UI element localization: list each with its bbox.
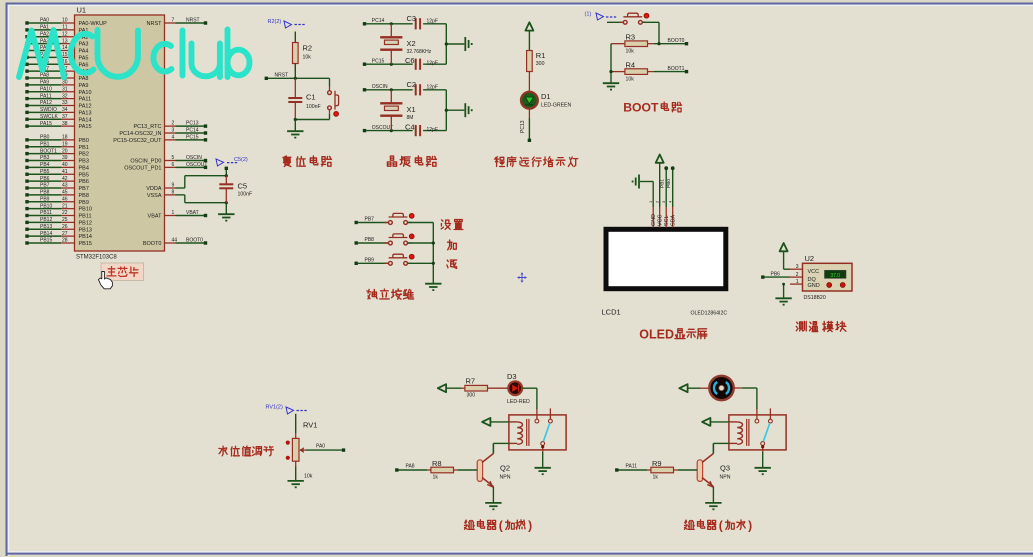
svg-text:12pF: 12pF [427, 84, 438, 90]
svg-text:PA11: PA11 [626, 464, 638, 470]
svg-text:PB12: PB12 [79, 220, 92, 226]
svg-text:PB10: PB10 [40, 203, 52, 209]
svg-text:R3: R3 [626, 33, 636, 42]
svg-text:PB10: PB10 [79, 207, 92, 213]
svg-text:PB3: PB3 [40, 155, 50, 161]
svg-text:VSSA: VSSA [147, 193, 162, 199]
svg-text:PB9: PB9 [79, 200, 89, 206]
svg-text:1k: 1k [653, 475, 659, 481]
svg-text:NRST: NRST [275, 73, 289, 79]
svg-text:VDDA: VDDA [146, 186, 162, 192]
svg-text:PA1: PA1 [40, 25, 49, 31]
svg-text:8M: 8M [407, 115, 414, 121]
svg-text:PA15: PA15 [79, 124, 92, 130]
svg-text:PB1: PB1 [660, 179, 666, 188]
svg-text:38: 38 [62, 121, 68, 127]
svg-text:SDA: SDA [670, 215, 676, 226]
svg-text:PC15-OSC32_OUT: PC15-OSC32_OUT [113, 138, 162, 144]
svg-text:PA12: PA12 [40, 100, 52, 106]
svg-text:26: 26 [62, 224, 68, 230]
svg-text:27: 27 [62, 231, 68, 237]
svg-text:PA8: PA8 [406, 464, 415, 470]
svg-text:D1: D1 [541, 92, 551, 101]
svg-text:PB13: PB13 [40, 224, 52, 230]
svg-text:R2(2): R2(2) [268, 19, 282, 25]
svg-text:C2: C2 [407, 80, 417, 89]
svg-text:LCD1: LCD1 [602, 308, 621, 317]
svg-text:R1: R1 [536, 51, 546, 60]
svg-text:PB2: PB2 [79, 152, 89, 158]
svg-text:PB5: PB5 [79, 172, 89, 178]
svg-text:PB5: PB5 [40, 169, 50, 175]
svg-text:PC14-OSC32_IN: PC14-OSC32_IN [119, 131, 161, 137]
svg-text:NRST: NRST [147, 21, 163, 27]
svg-text:10k: 10k [303, 54, 312, 60]
svg-text:37.0: 37.0 [830, 273, 840, 279]
svg-text:100nF: 100nF [306, 104, 321, 110]
svg-text:BOOT1: BOOT1 [40, 148, 57, 154]
svg-text:PB0: PB0 [79, 138, 89, 144]
svg-text:40: 40 [62, 162, 68, 168]
svg-text:PB4: PB4 [40, 162, 50, 168]
svg-text:PB0: PB0 [40, 135, 50, 141]
svg-text:PB6: PB6 [40, 176, 50, 182]
svg-text:PA9: PA9 [40, 80, 49, 86]
svg-text:(1): (1) [585, 12, 592, 18]
svg-text:5: 5 [172, 155, 175, 161]
svg-text:PA15: PA15 [40, 121, 52, 127]
svg-text:2: 2 [796, 272, 799, 278]
svg-text:C1: C1 [306, 93, 316, 102]
svg-text:PC13: PC13 [520, 120, 526, 133]
svg-text:PA4: PA4 [79, 49, 89, 55]
svg-text:OLED: OLED [639, 328, 674, 342]
svg-text:PB1: PB1 [79, 145, 89, 151]
svg-text:R7: R7 [466, 376, 476, 385]
svg-text:28: 28 [62, 238, 68, 244]
svg-text:NRST: NRST [186, 18, 200, 24]
svg-text:PA12: PA12 [79, 104, 92, 110]
svg-text:42: 42 [62, 176, 68, 182]
svg-text:43: 43 [62, 183, 68, 189]
svg-text:D3: D3 [507, 372, 517, 381]
svg-text:PA8: PA8 [40, 73, 49, 79]
svg-text:3: 3 [796, 264, 799, 270]
svg-text:33: 33 [62, 100, 68, 106]
svg-text:31: 31 [62, 86, 68, 92]
svg-text:PA10: PA10 [40, 86, 52, 92]
svg-text:PA6: PA6 [79, 62, 89, 68]
svg-text:PB11: PB11 [79, 214, 92, 220]
svg-text:4: 4 [172, 134, 175, 140]
svg-text:7: 7 [172, 18, 175, 24]
svg-text:R4: R4 [626, 61, 636, 70]
svg-text:R2: R2 [303, 44, 313, 53]
svg-text:PC13_RTC: PC13_RTC [133, 124, 161, 130]
svg-text:32: 32 [62, 93, 68, 99]
svg-text:OSCIN_PD0: OSCIN_PD0 [130, 159, 161, 165]
svg-text:PB9: PB9 [40, 196, 50, 202]
svg-text:37: 37 [62, 114, 68, 120]
svg-text:): ) [748, 518, 752, 532]
svg-text:PB3: PB3 [79, 159, 89, 165]
svg-text:46: 46 [62, 196, 68, 202]
svg-text:NPN: NPN [720, 475, 731, 481]
svg-text:(: ( [499, 518, 503, 532]
svg-text:PB7: PB7 [79, 186, 89, 192]
svg-text:PB6: PB6 [771, 271, 781, 277]
svg-text:OSCOUT_PD1: OSCOUT_PD1 [124, 165, 161, 171]
svg-text:LED-RED: LED-RED [507, 399, 530, 405]
svg-text:PB8: PB8 [40, 190, 50, 196]
svg-text:12pF: 12pF [427, 61, 438, 67]
svg-text:BOOT0: BOOT0 [143, 241, 162, 247]
svg-text:BOOT1: BOOT1 [668, 66, 685, 72]
svg-text:(: ( [719, 518, 723, 532]
svg-text:21: 21 [62, 203, 68, 209]
svg-text:100nF: 100nF [238, 192, 253, 198]
svg-text:R9: R9 [652, 459, 662, 468]
svg-text:LED-GREEN: LED-GREEN [541, 102, 572, 108]
svg-text:PB7: PB7 [40, 183, 50, 189]
svg-text:10k: 10k [626, 76, 635, 82]
svg-text:30: 30 [62, 80, 68, 86]
svg-text:1: 1 [796, 279, 799, 285]
svg-text:OSCIN: OSCIN [186, 155, 202, 161]
svg-text:C5: C5 [238, 182, 248, 191]
svg-text:OSCOUT: OSCOUT [186, 162, 207, 168]
svg-text:BOOT: BOOT [623, 100, 659, 114]
svg-text:SWDIO: SWDIO [40, 107, 57, 113]
svg-text:PB12: PB12 [40, 217, 52, 223]
svg-text:2: 2 [172, 121, 175, 127]
svg-text:14: 14 [62, 45, 68, 51]
svg-text:PC14: PC14 [186, 128, 199, 134]
svg-text:X1: X1 [407, 105, 416, 114]
svg-text:PA0: PA0 [40, 18, 49, 24]
svg-text:12pF: 12pF [427, 18, 438, 24]
svg-text:STM32F103C8: STM32F103C8 [76, 255, 117, 261]
svg-text:PC13: PC13 [186, 121, 199, 127]
svg-text:10: 10 [62, 18, 68, 24]
svg-text:OSCIN: OSCIN [372, 84, 388, 90]
svg-text:PB4: PB4 [79, 165, 89, 171]
svg-text:PA11: PA11 [79, 97, 92, 103]
svg-text:PA3: PA3 [79, 42, 89, 48]
svg-text:300: 300 [467, 393, 476, 399]
svg-text:NPN: NPN [500, 475, 511, 481]
svg-text:PB13: PB13 [79, 227, 92, 233]
svg-text:VCC: VCC [808, 269, 820, 275]
svg-text:X2: X2 [407, 39, 416, 48]
svg-text:3: 3 [172, 128, 175, 134]
svg-text:6: 6 [172, 162, 175, 168]
svg-text:Q3: Q3 [720, 464, 730, 473]
svg-text:13: 13 [62, 38, 68, 44]
svg-text:PB6: PB6 [79, 179, 89, 185]
svg-text:19: 19 [62, 141, 68, 147]
svg-text:C3: C3 [407, 14, 417, 23]
svg-text:SCL: SCL [664, 216, 670, 227]
svg-text:PB11: PB11 [40, 210, 52, 216]
svg-text:U1: U1 [77, 6, 87, 15]
svg-text:VBAT: VBAT [148, 214, 163, 220]
svg-text:12pF: 12pF [427, 127, 438, 133]
svg-text:PB15: PB15 [79, 241, 92, 247]
svg-text:BOOT0: BOOT0 [186, 238, 203, 244]
svg-text:PA8: PA8 [79, 76, 89, 82]
svg-text:Q2: Q2 [500, 464, 510, 473]
svg-text:12: 12 [62, 31, 68, 37]
svg-text:SWCLK: SWCLK [40, 114, 58, 120]
svg-text:10k: 10k [626, 49, 635, 55]
svg-text:9: 9 [172, 183, 175, 189]
svg-text:PA13: PA13 [79, 110, 92, 116]
svg-text:GND: GND [651, 214, 657, 226]
svg-text:PB8: PB8 [365, 237, 375, 243]
svg-text:PB7: PB7 [365, 217, 375, 223]
svg-text:PC15: PC15 [186, 134, 199, 140]
svg-text:8: 8 [172, 189, 175, 195]
svg-text:C5(2): C5(2) [234, 157, 248, 163]
svg-text:PA10: PA10 [79, 90, 92, 96]
svg-text:PB9: PB9 [365, 257, 375, 263]
svg-text:18: 18 [62, 135, 68, 141]
svg-text:PB14: PB14 [40, 231, 52, 237]
svg-text:PA0: PA0 [316, 444, 325, 450]
svg-text:PA2: PA2 [40, 31, 49, 37]
svg-text:R8: R8 [432, 459, 442, 468]
svg-text:41: 41 [62, 169, 68, 175]
svg-text:PB0: PB0 [666, 179, 672, 188]
svg-text:25: 25 [62, 217, 68, 223]
svg-text:PA14: PA14 [79, 117, 92, 123]
svg-text:): ) [528, 518, 532, 532]
svg-text:GND: GND [808, 283, 820, 289]
svg-text:22: 22 [62, 210, 68, 216]
svg-text:32.768KHz: 32.768KHz [407, 49, 432, 55]
svg-text:C4: C4 [405, 123, 415, 132]
svg-text:15: 15 [62, 52, 68, 58]
svg-text:DS18B20: DS18B20 [804, 295, 826, 301]
svg-text:45: 45 [62, 190, 68, 196]
svg-text:VCC: VCC [657, 215, 663, 226]
svg-text:PA0-WKUP: PA0-WKUP [79, 21, 108, 27]
svg-text:PA5: PA5 [79, 55, 89, 61]
svg-text:VBAT: VBAT [186, 210, 199, 216]
svg-text:PB1: PB1 [40, 141, 50, 147]
svg-text:10k: 10k [304, 474, 313, 480]
svg-text:34: 34 [62, 107, 68, 113]
svg-text:C6: C6 [405, 56, 415, 65]
svg-text:PA9: PA9 [79, 83, 89, 89]
svg-text:300: 300 [536, 61, 545, 67]
svg-text:OLED12864I2C: OLED12864I2C [691, 311, 728, 317]
svg-text:BOOT0: BOOT0 [668, 38, 685, 44]
svg-text:11: 11 [62, 25, 67, 31]
svg-text:RV1(2): RV1(2) [266, 404, 283, 410]
svg-text:PB15: PB15 [40, 238, 52, 244]
svg-text:1: 1 [172, 210, 175, 216]
svg-text:U2: U2 [805, 254, 815, 263]
svg-text:1k: 1k [433, 475, 439, 481]
svg-text:PA11: PA11 [40, 93, 52, 99]
svg-text:39: 39 [62, 155, 68, 161]
svg-text:RV1: RV1 [303, 420, 317, 429]
svg-text:PB14: PB14 [79, 234, 92, 240]
svg-text:PB8: PB8 [79, 193, 89, 199]
svg-text:20: 20 [62, 148, 68, 154]
